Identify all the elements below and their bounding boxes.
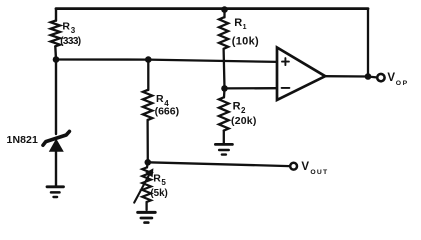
svg-text:(5k): (5k)	[150, 188, 167, 199]
svg-text:(20k): (20k)	[231, 115, 257, 127]
svg-text:2: 2	[241, 106, 246, 115]
svg-text:1: 1	[243, 24, 247, 31]
svg-text:(666): (666)	[155, 105, 180, 117]
svg-text:R: R	[156, 93, 164, 105]
svg-text:(10k): (10k)	[232, 35, 259, 47]
svg-text:R: R	[62, 20, 70, 32]
svg-text:R: R	[233, 100, 241, 112]
svg-text:V: V	[387, 72, 395, 84]
svg-text:OP: OP	[396, 80, 409, 87]
svg-text:1N821: 1N821	[7, 134, 39, 146]
svg-text:(333): (333)	[60, 36, 81, 47]
svg-text:5: 5	[161, 178, 166, 187]
svg-text:R: R	[153, 172, 161, 184]
svg-text:R: R	[234, 17, 242, 29]
svg-text:V: V	[301, 161, 309, 173]
svg-text:3: 3	[71, 26, 76, 35]
svg-text:OUT: OUT	[310, 169, 328, 176]
